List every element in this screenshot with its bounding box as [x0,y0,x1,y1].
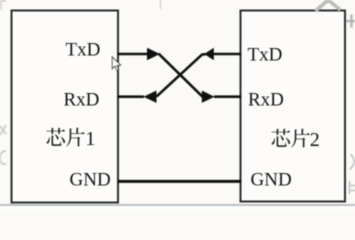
wire TxD(U2) horizontal segment [213,53,242,56]
artifact: faint corner tick top-left [1,1,6,10]
svg-text:TxD: TxD [248,44,283,65]
svg-text:GND: GND [70,169,111,190]
svg-text:RxD: RxD [248,89,284,110]
artifact: faint glyph fragments right edge [350,154,355,194]
background band below bottom rule [0,206,355,211]
wire GND(U1)–GND(U2) [118,180,242,183]
svg-text:TxD: TxD [66,40,101,61]
arrowhead on TxD(U2) wire pointing left [204,48,214,60]
chip U1 (芯片1) box [12,11,119,203]
svg-text:2: 2 [310,129,320,151]
wire TxD(U2)→RxD(U1) diagonal crossover [157,54,206,96]
wire TxD(U1)→RxD(U2) diagonal crossover [159,54,203,97]
arrowhead into RxD(U2) pointing right [202,91,215,103]
wire into RxD(U2) horizontal segment [214,95,242,98]
svg-text:GND: GND [251,169,292,190]
arrowhead on TxD(U1) wire pointing right [147,48,160,60]
arrowhead into RxD(U1) pointing left [144,91,157,103]
chip U2 (芯片2) box [241,11,346,202]
svg-text:RxD: RxD [64,89,100,110]
mouse cursor pointer [112,57,121,70]
chip name 芯片2 (U2) [271,129,309,148]
artifact: faint vertical tick top centre [160,0,162,9]
artifact: faint cross at right edge [347,15,355,28]
artifact: faint caret above U2 box [316,0,341,11]
wire TxD(U1) horizontal segment [118,53,149,56]
wire into RxD(U1) horizontal segment [118,95,145,98]
artifact: faint glyph fragment left edge (x) [0,125,6,135]
chip name 芯片1 (U1) [46,128,84,147]
artifact: faint glyph fragment left edge (o) [0,151,6,164]
artifact: faint horizontal rule near bottom [0,204,355,206]
svg-text:1: 1 [85,128,95,150]
